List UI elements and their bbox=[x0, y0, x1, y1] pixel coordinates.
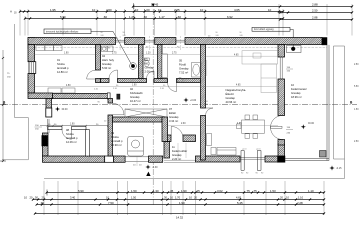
label room 03 WC bbox=[145, 58, 155, 74]
svg-text:3.62: 3.62 bbox=[217, 189, 223, 193]
svg-text:90: 90 bbox=[101, 32, 103, 34]
washer dryer room04 bbox=[102, 46, 114, 52]
entry east wall lower bbox=[201, 116, 206, 161]
sofa bbox=[211, 148, 236, 156]
svg-text:Előtér: Előtér bbox=[169, 111, 176, 115]
dim line left rooms y126 bbox=[40, 123, 112, 126]
leader from label box 2 to stove bbox=[290, 29, 293, 47]
bathtub bbox=[192, 63, 202, 78]
label room 01 bbox=[57, 58, 69, 74]
entry door swing bbox=[171, 126, 183, 138]
leader from label box 1 to boiler bbox=[91, 31, 132, 64]
svg-text:laminált p: laminált p bbox=[66, 136, 78, 140]
svg-text:240: 240 bbox=[240, 35, 243, 37]
room09 west wall upper stub bbox=[108, 99, 113, 104]
terrace right edge bbox=[327, 45, 329, 161]
svg-text:Szoba: Szoba bbox=[111, 135, 119, 139]
svg-text:1.17: 1.17 bbox=[159, 15, 165, 19]
window W2 in top wall bbox=[145, 40, 155, 42]
svg-text:1.10: 1.10 bbox=[298, 195, 304, 199]
dim extension lines bottom bbox=[44, 181, 324, 215]
svg-text:10.90 m²: 10.90 m² bbox=[111, 143, 122, 147]
svg-text:1.90: 1.90 bbox=[181, 189, 187, 193]
svg-text:1.30: 1.30 bbox=[153, 189, 159, 193]
svg-text:1.10: 1.10 bbox=[308, 189, 314, 193]
svg-text:5.90: 5.90 bbox=[78, 189, 84, 193]
svg-text:43.96 m²: 43.96 m² bbox=[226, 100, 237, 104]
svg-text:1.90: 1.90 bbox=[64, 53, 69, 55]
door labels corridor arm bbox=[94, 89, 101, 104]
interior wall room01 south bbox=[53, 94, 108, 99]
svg-text:240: 240 bbox=[101, 35, 104, 37]
svg-text:240: 240 bbox=[123, 35, 126, 37]
top wall end block at terrace bbox=[322, 38, 327, 45]
room09 door swing bbox=[113, 103, 125, 115]
svg-text:5.45: 5.45 bbox=[237, 201, 243, 205]
svg-text:Fürdő: Fürdő bbox=[179, 63, 187, 67]
svg-text:Greslap: Greslap bbox=[179, 67, 189, 71]
svg-text:Greslap: Greslap bbox=[145, 66, 155, 70]
corridor north wall seg1 bbox=[101, 79, 110, 83]
window W4 in left wall bbox=[29, 62, 36, 74]
svg-text:12.06 m²: 12.06 m² bbox=[66, 140, 77, 144]
bath cabinet next to WC wall bbox=[162, 54, 167, 78]
svg-text:10: 10 bbox=[135, 8, 139, 12]
svg-text:3.40: 3.40 bbox=[70, 195, 76, 199]
top wall B segment 1 bbox=[125, 38, 145, 45]
svg-text:6.92: 6.92 bbox=[227, 15, 233, 19]
corridor south wall bbox=[113, 117, 163, 122]
svg-text:2.75: 2.75 bbox=[112, 53, 117, 55]
east wall stub below door bbox=[278, 140, 285, 146]
label room 09 bbox=[111, 131, 123, 147]
porch front wall left of door bbox=[164, 135, 171, 142]
elevation marker entry step bbox=[0, 0, 1, 1]
svg-text:±0.00: ±0.00 bbox=[62, 108, 69, 111]
terrace double door leaf bbox=[271, 126, 283, 128]
svg-text:Greslap: Greslap bbox=[291, 91, 301, 95]
room09 west wall lower bbox=[108, 115, 113, 156]
window W1 in top wall step bbox=[116, 40, 125, 42]
jog wall left (room01 south) bbox=[28, 93, 53, 99]
svg-text:±0.00: ±0.00 bbox=[308, 122, 315, 125]
svg-text:10.47 m²: 10.47 m² bbox=[130, 99, 141, 103]
svg-text:tervezett épületgépek elhelyez: tervezett épületgépek elhelyez bbox=[46, 30, 79, 33]
label room 07 entry bbox=[169, 107, 179, 123]
porch side wall bbox=[164, 142, 170, 159]
section line B-B bbox=[2, 100, 357, 104]
svg-text:Greslap: Greslap bbox=[169, 115, 179, 119]
svg-text:Nappali+Konyha-: Nappali+Konyha- bbox=[226, 88, 247, 92]
svg-text:3.34 m²: 3.34 m² bbox=[169, 119, 178, 123]
bottom dim line 2 bbox=[24, 195, 325, 200]
svg-text:Szoba: Szoba bbox=[66, 132, 74, 136]
room09 door size labels bbox=[104, 121, 112, 123]
roof outline right and bottom bbox=[44, 46, 345, 179]
bath sink bbox=[177, 78, 183, 82]
toilet WC bbox=[144, 58, 149, 67]
left wall lower bottom part bbox=[43, 133, 49, 156]
svg-text:75: 75 bbox=[254, 189, 258, 193]
svg-text:.60: .60 bbox=[177, 15, 181, 19]
svg-text:Greslap: Greslap bbox=[130, 95, 140, 99]
left edge marks bbox=[0, 105, 6, 161]
svg-text:Házt. hely: Házt. hely bbox=[102, 58, 115, 62]
svg-text:10: 10 bbox=[291, 83, 294, 87]
svg-text:04: 04 bbox=[102, 54, 105, 58]
site boundary polyline left bbox=[2, 24, 28, 160]
svg-text:fém kültéri egység: fém kültéri egység bbox=[254, 28, 274, 31]
bottom wall living left part bbox=[196, 156, 241, 162]
bath door swing bbox=[168, 83, 177, 92]
svg-text:1.25: 1.25 bbox=[129, 15, 135, 19]
kitchen counter top bbox=[242, 51, 278, 64]
kitchen counter side bbox=[261, 64, 277, 93]
svg-text:.60: .60 bbox=[143, 15, 147, 19]
bottom wall segment 2 bbox=[114, 156, 126, 162]
top wall B segment 3 (long) bbox=[185, 38, 322, 45]
svg-text:10: 10 bbox=[268, 8, 272, 12]
svg-text:75: 75 bbox=[247, 189, 251, 193]
porch front wall right of door bbox=[183, 135, 196, 142]
interior dim living y125 bbox=[168, 123, 279, 125]
svg-text:4.65: 4.65 bbox=[236, 84, 241, 86]
label room 04 bbox=[102, 54, 115, 70]
interior wall V1 lower stub bbox=[96, 79, 101, 83]
bottom dim line 1 bbox=[46, 189, 326, 196]
svg-text:4.50: 4.50 bbox=[66, 85, 71, 87]
dining table bbox=[237, 115, 265, 138]
section line A-A bbox=[146, 4, 155, 205]
boiler room04 bbox=[130, 63, 137, 70]
svg-text:90: 90 bbox=[240, 32, 242, 34]
svg-text:45: 45 bbox=[170, 189, 174, 193]
svg-text:1.50: 1.50 bbox=[354, 109, 359, 111]
shoe cabinet entry bbox=[207, 134, 212, 146]
svg-text:4.65: 4.65 bbox=[236, 195, 242, 199]
svg-text:4.65: 4.65 bbox=[237, 123, 242, 125]
top-left corner block bbox=[28, 38, 35, 49]
svg-text:25: 25 bbox=[197, 189, 201, 193]
svg-text:1.00: 1.00 bbox=[144, 8, 150, 12]
bottom wall living right part bbox=[265, 156, 278, 162]
corridor north wall seg4 bbox=[177, 79, 201, 83]
stove box bbox=[287, 46, 302, 53]
room08 door swing bbox=[62, 130, 72, 140]
terrace door size labels bbox=[286, 127, 293, 135]
svg-text:laminált p: laminált p bbox=[111, 139, 123, 143]
east wall above corner bbox=[278, 144, 285, 156]
svg-text:7.52 m²: 7.52 m² bbox=[179, 71, 188, 75]
room04 door swing bbox=[109, 70, 118, 79]
bottom wall segment 3 bbox=[149, 156, 163, 162]
svg-text:1.50: 1.50 bbox=[131, 195, 137, 199]
window W8 in east wall bbox=[280, 57, 282, 79]
svg-text:.90: .90 bbox=[40, 201, 44, 205]
left vertical dim line bbox=[2, 50, 4, 162]
svg-text:5.90 m²: 5.90 m² bbox=[102, 66, 111, 70]
jamb block right of door bbox=[117, 94, 120, 99]
svg-text:5.30: 5.30 bbox=[60, 15, 66, 19]
door size labels misc bbox=[113, 85, 264, 175]
svg-text:2.75: 2.75 bbox=[174, 8, 180, 12]
left wall upper segment bbox=[28, 45, 35, 62]
left wall below window bbox=[28, 74, 35, 94]
svg-text:90: 90 bbox=[123, 32, 125, 34]
svg-text:07: 07 bbox=[169, 107, 172, 111]
height mark H bbox=[10, 10, 17, 15]
svg-text:2.50: 2.50 bbox=[106, 8, 112, 12]
right vertical dim texts bbox=[354, 64, 359, 143]
svg-text:2.50: 2.50 bbox=[312, 9, 318, 13]
window W3 in top wall bbox=[176, 40, 185, 42]
dim chain row1 bbox=[19, 8, 284, 12]
slide leaf 2 bbox=[257, 151, 261, 171]
svg-text:-0.15: -0.15 bbox=[336, 167, 342, 170]
svg-text:4.65: 4.65 bbox=[234, 8, 240, 12]
dim extension lines top bbox=[20, 4, 352, 36]
svg-text:2.88: 2.88 bbox=[312, 3, 318, 7]
terrace door swings bbox=[271, 116, 283, 140]
stove dot bbox=[291, 47, 295, 51]
svg-text:2.20 m²: 2.20 m² bbox=[172, 157, 181, 161]
svg-text:1.90: 1.90 bbox=[132, 84, 137, 86]
svg-text:08: 08 bbox=[66, 128, 69, 132]
svg-text:12.80 m²: 12.80 m² bbox=[57, 70, 68, 74]
svg-text:1.95: 1.95 bbox=[50, 8, 56, 12]
svg-text:Greslap: Greslap bbox=[172, 153, 182, 157]
desk room01 bbox=[48, 88, 75, 93]
corridor north wall seg3 bbox=[154, 79, 168, 83]
elevation marker terrace bbox=[0, 0, 1, 1]
svg-text:2.50: 2.50 bbox=[354, 64, 359, 66]
entry-living door swing bbox=[206, 108, 214, 116]
label room 08 bbox=[66, 128, 78, 144]
svg-text:WC: WC bbox=[145, 62, 150, 66]
east wall above window bbox=[278, 45, 285, 58]
svg-text:10: 10 bbox=[92, 8, 96, 12]
svg-text:2.28: 2.28 bbox=[297, 201, 303, 205]
svg-text:10: 10 bbox=[200, 8, 204, 12]
svg-text:1.90: 1.90 bbox=[179, 201, 185, 205]
svg-text:H: H bbox=[10, 10, 12, 14]
bed room09 bbox=[128, 137, 144, 157]
bottom dim line 4 bbox=[34, 212, 325, 219]
vertical dim 1.44 bath wall bbox=[205, 60, 207, 76]
svg-text:1.20: 1.20 bbox=[146, 53, 151, 55]
svg-text:1.50: 1.50 bbox=[131, 189, 137, 193]
beam dashed line under top wall bbox=[34, 47, 327, 49]
interior dim living y56 bbox=[206, 54, 279, 56]
svg-text:2.30: 2.30 bbox=[181, 123, 186, 125]
WC right wall bbox=[158, 45, 163, 79]
porch steps bbox=[164, 143, 196, 162]
window center axes top wall bbox=[120, 36, 180, 51]
room08 north wall thin bbox=[48, 127, 86, 130]
interior dim corridor y86.5 bbox=[35, 84, 278, 87]
svg-text:Greslap: Greslap bbox=[102, 62, 112, 66]
svg-text:05: 05 bbox=[179, 59, 182, 63]
svg-text:7.50: 7.50 bbox=[108, 201, 114, 205]
svg-text:09: 09 bbox=[111, 131, 114, 135]
svg-text:240: 240 bbox=[216, 35, 219, 37]
terrace column bbox=[320, 151, 327, 158]
entry west wall bbox=[162, 117, 168, 142]
elevation marker right bottom bbox=[0, 0, 1, 1]
svg-text:2.88: 2.88 bbox=[312, 15, 318, 19]
svg-text:2.00 m²: 2.00 m² bbox=[145, 70, 154, 74]
WC door swing bbox=[147, 71, 155, 79]
label room 05 bath bbox=[179, 59, 189, 75]
interior dim room row y50 bbox=[35, 53, 201, 55]
door size labels top wall bbox=[108, 36, 211, 50]
svg-text:4.65: 4.65 bbox=[234, 54, 239, 56]
label living room bbox=[226, 88, 247, 104]
svg-text:+0.00: +0.00 bbox=[190, 99, 197, 102]
svg-text:laminált p: laminált p bbox=[57, 66, 69, 70]
WC left wall bbox=[139, 45, 144, 79]
svg-text:1.70: 1.70 bbox=[175, 195, 181, 199]
svg-text:03: 03 bbox=[145, 58, 148, 62]
elevation marker corridor bbox=[0, 0, 1, 1]
elevation marker entry bbox=[0, 0, 1, 1]
wall end block white bbox=[46, 108, 52, 117]
walkway rectangle right bbox=[334, 46, 345, 159]
label box kemeny bbox=[252, 27, 290, 31]
svg-text:10: 10 bbox=[158, 8, 162, 12]
corridor north wall segs bbox=[0, 0, 1, 1]
wall corner block lower-left bbox=[42, 136, 48, 147]
svg-text:Fedett előtér: Fedett előtér bbox=[172, 149, 187, 153]
window W5 in lower left wall bbox=[47, 119, 49, 133]
sliding glass door bottom bbox=[240, 158, 265, 160]
svg-text:.60: .60 bbox=[103, 15, 107, 19]
junction box in bottom wall bbox=[105, 156, 114, 162]
terrace bottom edge bbox=[285, 159, 329, 161]
entry/bath east wall upper bbox=[201, 45, 206, 109]
corner block living south-east bbox=[278, 156, 286, 162]
corridor north wall seg2 bbox=[118, 79, 147, 83]
label box tervezett bbox=[44, 29, 91, 34]
overall dim line 15.45 bbox=[132, 3, 353, 10]
label terrace bbox=[291, 83, 307, 99]
room01 door swing bbox=[87, 70, 96, 79]
top wall B segment 2 bbox=[155, 38, 176, 45]
svg-text:Szoba: Szoba bbox=[57, 62, 65, 66]
window sill labels bbox=[7, 67, 293, 167]
partition rooms 08-09 bbox=[86, 130, 90, 156]
window axis labels sz-m bbox=[101, 32, 243, 37]
bottom dim line 3 bbox=[36, 201, 326, 206]
svg-text:01: 01 bbox=[57, 58, 60, 62]
svg-text:2.50: 2.50 bbox=[354, 141, 359, 143]
svg-text:2.75: 2.75 bbox=[172, 53, 177, 55]
svg-text:5.50: 5.50 bbox=[354, 86, 359, 88]
label porch bbox=[172, 145, 187, 161]
label room 02 corridor bbox=[130, 87, 143, 103]
svg-text:02: 02 bbox=[130, 87, 133, 91]
right dim rows 2.50 / 2.88 bbox=[279, 9, 353, 21]
window W7 in bottom wall (room 09) bbox=[125, 156, 148, 166]
wall1 end block bbox=[107, 93, 110, 99]
east wall middle bbox=[278, 79, 285, 116]
wardrobe room01 top bbox=[36, 46, 62, 51]
svg-text:Közlekedő: Közlekedő bbox=[130, 91, 143, 95]
bottom wall segment 1 bbox=[43, 156, 105, 162]
svg-text:Fedett terasz: Fedett terasz bbox=[291, 87, 307, 91]
svg-text:14.32: 14.32 bbox=[176, 215, 183, 219]
interior wall V1 room01/04 upper bbox=[96, 45, 101, 71]
wardrobe corridor bbox=[125, 109, 167, 117]
svg-text:90: 90 bbox=[216, 32, 218, 34]
slide leaf 1 bbox=[241, 151, 244, 171]
svg-text:-0.30: -0.30 bbox=[152, 166, 158, 169]
svg-text:Greslap: Greslap bbox=[226, 96, 236, 100]
dim chain row2 bbox=[24, 15, 284, 20]
svg-text:1.53: 1.53 bbox=[270, 189, 276, 193]
svg-text:18.96 m²: 18.96 m² bbox=[291, 95, 302, 99]
left wall lower upper part bbox=[46, 99, 52, 111]
svg-text:1.90: 1.90 bbox=[70, 123, 75, 125]
top wall A (north-west) bbox=[28, 38, 116, 45]
